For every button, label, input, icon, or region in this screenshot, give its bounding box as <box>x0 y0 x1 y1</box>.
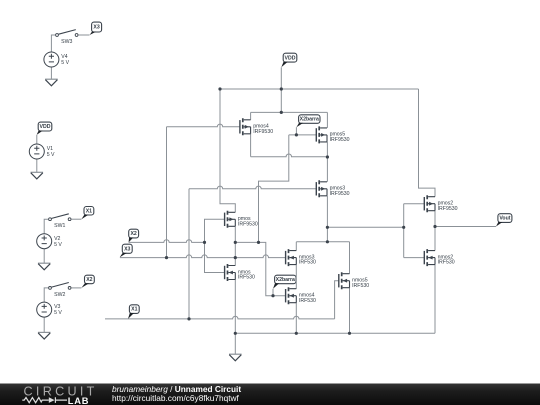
svg-text:VDD: VDD <box>40 124 51 130</box>
svg-text:SW3: SW3 <box>61 39 72 45</box>
svg-text:IRF530: IRF530 <box>352 283 369 289</box>
svg-text:SW1: SW1 <box>54 223 65 229</box>
svg-text:http://circuitlab.com/c6y8fku7: http://circuitlab.com/c6y8fku7hqtwf <box>112 393 240 403</box>
svg-text:IRF9530: IRF9530 <box>330 191 350 197</box>
svg-text:5 V: 5 V <box>54 242 62 248</box>
svg-text:X1: X1 <box>131 307 137 313</box>
svg-text:X2barra: X2barra <box>300 117 319 123</box>
svg-text:SW2: SW2 <box>54 292 65 298</box>
svg-text:5 V: 5 V <box>54 310 62 316</box>
svg-text:IRF9530: IRF9530 <box>438 206 458 212</box>
svg-text:IRF530: IRF530 <box>299 260 316 266</box>
svg-text:Vout: Vout <box>499 216 510 222</box>
svg-text:VDD: VDD <box>285 55 296 61</box>
svg-text:IRF9530: IRF9530 <box>330 137 350 143</box>
svg-text:X2: X2 <box>130 231 136 237</box>
svg-text:X3: X3 <box>93 25 99 31</box>
svg-text:IRF530: IRF530 <box>438 260 455 266</box>
svg-text:X2barra: X2barra <box>276 277 295 283</box>
svg-text:IRF530: IRF530 <box>238 275 255 281</box>
svg-text:5 V: 5 V <box>47 152 55 158</box>
svg-text:X1: X1 <box>86 208 92 214</box>
svg-text:X2: X2 <box>86 277 92 283</box>
svg-text:LAB: LAB <box>68 396 90 405</box>
svg-text:5 V: 5 V <box>61 60 69 66</box>
svg-text:X3: X3 <box>124 246 130 252</box>
svg-text:IRF9530: IRF9530 <box>253 129 273 135</box>
svg-text:IRF530: IRF530 <box>299 298 316 304</box>
svg-text:IRF9530: IRF9530 <box>238 221 258 227</box>
